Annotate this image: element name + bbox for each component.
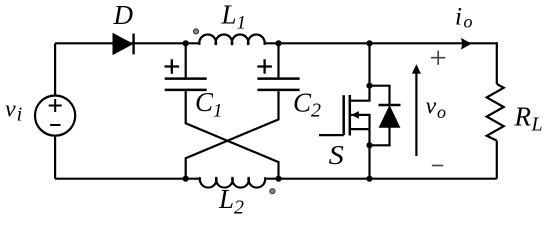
svg-text:L1: L1 bbox=[221, 0, 247, 33]
wire top rail bbox=[55, 42, 497, 44]
node C (top rail S branch) bbox=[366, 40, 372, 46]
node A bbox=[183, 40, 189, 46]
voltage source vi bbox=[35, 96, 75, 136]
node E (L2 left) bbox=[183, 176, 189, 182]
wire left branch top bbox=[54, 43, 56, 95]
plus C2 bbox=[257, 59, 272, 74]
polarity dot L1 bbox=[194, 29, 199, 34]
resistor RL bbox=[487, 84, 504, 141]
svg-text:vo: vo bbox=[426, 94, 446, 122]
svg-text:L2: L2 bbox=[218, 184, 244, 219]
plus C1 bbox=[165, 59, 180, 74]
polarity dot L2 bbox=[270, 189, 275, 194]
node bottom rail S branch bbox=[366, 176, 372, 182]
capacitor C2 bbox=[257, 43, 299, 90]
wire left branch bottom bbox=[54, 136, 56, 179]
body diode of S bbox=[370, 86, 401, 146]
arrow vo bbox=[412, 64, 421, 156]
current arrow io bbox=[462, 39, 470, 48]
transistor S (MOSFET) bbox=[319, 86, 370, 146]
wire bottom rail bbox=[55, 178, 497, 180]
wire S branch bottom bbox=[368, 145, 370, 178]
svg-text:vi: vi bbox=[5, 96, 22, 125]
svg-text:RL: RL bbox=[514, 101, 543, 135]
plus vo bbox=[431, 51, 445, 65]
inductor L1 bbox=[199, 35, 264, 45]
node drain junction bbox=[366, 83, 372, 89]
svg-text:C2: C2 bbox=[293, 87, 321, 121]
diode D bbox=[113, 34, 134, 55]
node source junction bbox=[366, 142, 372, 148]
svg-text:C1: C1 bbox=[195, 87, 223, 121]
node D2 (L2 right) bbox=[275, 176, 281, 182]
node B bbox=[275, 40, 281, 46]
wire right branch bottom bbox=[496, 141, 498, 179]
capacitor C1 bbox=[165, 43, 207, 90]
wire C1 to L2 right (cross) bbox=[186, 91, 279, 179]
svg-text:D: D bbox=[113, 0, 134, 30]
wire C2 to L2 left (cross) bbox=[186, 91, 279, 179]
wire S branch top bbox=[368, 43, 370, 85]
minus vo bbox=[432, 165, 443, 167]
svg-text:S: S bbox=[329, 140, 345, 170]
svg-text:io: io bbox=[455, 4, 472, 32]
inductor L2 bbox=[200, 177, 265, 187]
wire right branch top bbox=[496, 42, 498, 84]
